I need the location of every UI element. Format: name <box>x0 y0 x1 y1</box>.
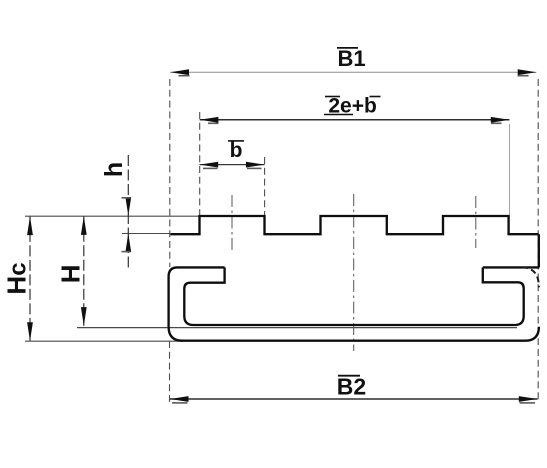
channel cavity outline <box>184 267 523 325</box>
B1 right arrow <box>518 69 537 75</box>
h top arrow ghost <box>122 197 131 199</box>
B1/B2 right ext <box>537 79 539 403</box>
ext line top (tooth top, for h/H/Hc) <box>25 215 200 217</box>
Hc dimension line (vertical, dashed) <box>29 216 31 341</box>
ext line root (for h bottom) <box>122 233 171 235</box>
Hc bottom arrow (points down) <box>27 322 33 341</box>
svg-text:h: h <box>100 162 128 177</box>
H dimension line (vertical, dashed) <box>83 216 85 326</box>
H bottom arrow (points down) <box>81 307 87 326</box>
svg-text:B1: B1 <box>337 46 365 71</box>
channel outer outline <box>169 267 539 340</box>
b right arrow ghost <box>247 167 262 169</box>
b left arrow ghost <box>203 167 218 169</box>
B2 left arrow <box>170 396 189 402</box>
h bottom arrow ghost <box>122 251 131 253</box>
b right ext <box>264 157 266 216</box>
h dimension line (vertical, dashed) <box>127 155 129 268</box>
b left arrow <box>200 162 219 168</box>
main centerline <box>353 194 355 351</box>
B2 right arrow ghost <box>520 402 536 404</box>
2e+b dimension line <box>200 119 510 121</box>
2e+b left arrow ghost <box>208 122 219 124</box>
svg-text:B2: B2 <box>337 373 366 399</box>
B1 left arrow <box>170 69 189 75</box>
2e+b right arrow ghost <box>491 122 502 124</box>
tooth1 centerline <box>231 195 233 250</box>
B2 left ext <box>169 341 171 403</box>
h bottom arrow (points up) <box>125 233 131 252</box>
ext line outer bottom (for Hc bottom) <box>25 340 183 342</box>
svg-text:Hc: Hc <box>2 262 32 294</box>
top-right corner arc (broken) <box>522 267 539 287</box>
B2 right arrow <box>519 396 538 402</box>
b right arrow <box>246 162 265 168</box>
b dimension line <box>200 164 265 166</box>
2e+b left arrow <box>200 117 219 123</box>
B1 right arrow ghost <box>518 75 529 77</box>
svg-text:H: H <box>55 264 85 283</box>
B2 left arrow ghost <box>172 402 188 404</box>
tooth3 centerline <box>475 196 477 248</box>
ext line inner floor (for H bottom) <box>77 327 517 329</box>
svg-text:b: b <box>230 139 243 162</box>
2e+b right ext <box>509 124 511 215</box>
2e+b right arrow <box>491 117 510 123</box>
B1 left ext <box>169 79 171 267</box>
H top arrow (points up) <box>81 216 87 235</box>
Hc top arrow (points up) <box>27 216 33 235</box>
2e+b / b left ext <box>199 112 201 216</box>
B1 left arrow ghost <box>179 75 190 77</box>
right end wall <box>538 234 540 267</box>
h top arrow (points down) <box>125 197 131 216</box>
teeth outline <box>171 216 539 234</box>
channel right lip top <box>483 266 540 268</box>
B1 dimension line <box>170 71 536 73</box>
B2 dimension line <box>170 398 538 400</box>
